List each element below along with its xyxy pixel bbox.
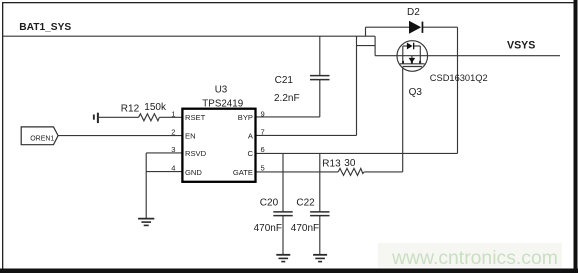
svg-text:GND: GND [185, 168, 202, 177]
wire pin 7 A line [256, 134, 357, 136]
svg-text:CSD16301Q2: CSD16301Q2 [430, 73, 488, 83]
wire pin 6 C line [256, 152, 458, 154]
wire Q3 source ladder stub 2 [357, 45, 376, 47]
resistor R13 zigzag [338, 168, 364, 175]
svg-text:C22: C22 [296, 197, 315, 208]
Q3 body arrow [411, 56, 413, 59]
svg-text:C: C [248, 149, 254, 158]
svg-text:6: 6 [261, 145, 265, 154]
capacitor C20 plates [273, 212, 292, 216]
ground under C22 [313, 255, 327, 262]
wire pin 9 BYP line [256, 116, 320, 118]
svg-text:C21: C21 [275, 75, 294, 86]
wire OREN1 to EN pin2 [58, 135, 182, 137]
resistor R12 zigzag [139, 114, 160, 121]
svg-text:VSYS: VSYS [507, 40, 535, 52]
Q3 body diode cathode bar [413, 43, 414, 50]
svg-text:2: 2 [171, 128, 175, 137]
watermark band [378, 243, 562, 268]
wire RSET pin1 right segment [159, 116, 182, 118]
svg-text:U3: U3 [215, 84, 228, 95]
wire C22 riser bottom [319, 216, 321, 255]
svg-text:RSVD: RSVD [185, 149, 207, 158]
wire C21 riser top [319, 36, 321, 75]
svg-text:Q3: Q3 [409, 87, 423, 98]
frame left border [2, 2, 3, 269]
wire BAT1_SYS rail [3, 35, 375, 37]
wire pin A riser [356, 36, 358, 135]
svg-text:1: 1 [171, 109, 175, 118]
svg-text:EN: EN [185, 132, 196, 141]
Q3 gate bar [403, 66, 422, 68]
node OREN1 port [21, 127, 58, 145]
svg-text:BYP: BYP [238, 113, 253, 122]
wire C20 riser top [282, 153, 284, 211]
wire D2 cathode horizontal [423, 26, 458, 28]
transistor Q3 MOSFET body [397, 41, 428, 72]
wire VSYS line [375, 55, 560, 57]
wire C20 riser bottom [282, 216, 284, 255]
net stub tick left of R12 [93, 115, 95, 120]
wire R13 to gate riser [364, 171, 403, 173]
net stub bar left of R12 [97, 113, 99, 123]
wire C22 riser top [319, 153, 321, 211]
wire pin 4 GND stub [146, 171, 182, 173]
frame top border [2, 2, 576, 3]
wire D2 anode riser [365, 27, 367, 36]
op-amp U3 IC box [182, 109, 255, 182]
wire pin 3 RSVD stub [146, 152, 182, 154]
svg-text:RSET: RSET [185, 113, 206, 122]
svg-text:470nF: 470nF [254, 223, 282, 234]
svg-text:D2: D2 [407, 7, 420, 18]
diode D2 cathode bar [422, 22, 424, 33]
Q3 channel ticks [403, 61, 420, 64]
svg-text:OREN1: OREN1 [30, 136, 54, 143]
wire Q3 source ladder right vertical [374, 36, 376, 56]
ground under pins 3/4 [138, 219, 154, 226]
capacitor C21 plates [310, 76, 330, 80]
svg-text:150k: 150k [144, 102, 167, 113]
Q3 channel line [400, 63, 425, 65]
svg-text:5: 5 [261, 164, 265, 173]
frame bottom border [0, 269, 578, 273]
wire C21 riser bottom [319, 80, 321, 117]
svg-text:R13: R13 [322, 158, 341, 169]
wire D2 cathode drop to VSYS/C net [457, 27, 459, 153]
svg-text:BAT1_SYS: BAT1_SYS [19, 22, 71, 33]
Q3 body diode wires [403, 45, 407, 47]
wire Q3 gate lead [402, 67, 404, 172]
frame right border [574, 0, 578, 273]
svg-text:www.cntronics.com: www.cntronics.com [391, 247, 558, 269]
svg-text:4: 4 [171, 164, 175, 173]
Q3 body diode triangle [407, 43, 413, 50]
svg-text:R12: R12 [121, 104, 140, 115]
svg-text:9: 9 [261, 109, 265, 118]
wire ground riser pins 3+4 [145, 153, 147, 218]
svg-text:GATE: GATE [233, 168, 253, 177]
svg-text:7: 7 [261, 128, 265, 137]
wire pin 5 GATE line [256, 171, 339, 173]
svg-text:3: 3 [171, 145, 175, 154]
svg-text:TPS2419: TPS2419 [202, 99, 243, 110]
wire D2 anode horizontal [366, 26, 410, 28]
svg-text:470nF: 470nF [291, 223, 319, 234]
diode D2 triangle [409, 21, 421, 34]
ground under C20 [276, 255, 290, 262]
wire RSET pin1 left segment [99, 116, 139, 118]
svg-text:C20: C20 [260, 197, 279, 208]
Q3 left bar [402, 46, 404, 64]
svg-text:2.2nF: 2.2nF [274, 93, 300, 104]
svg-text:30: 30 [344, 158, 356, 169]
Q3 right bar [419, 46, 421, 64]
capacitor C22 plates [310, 212, 329, 216]
